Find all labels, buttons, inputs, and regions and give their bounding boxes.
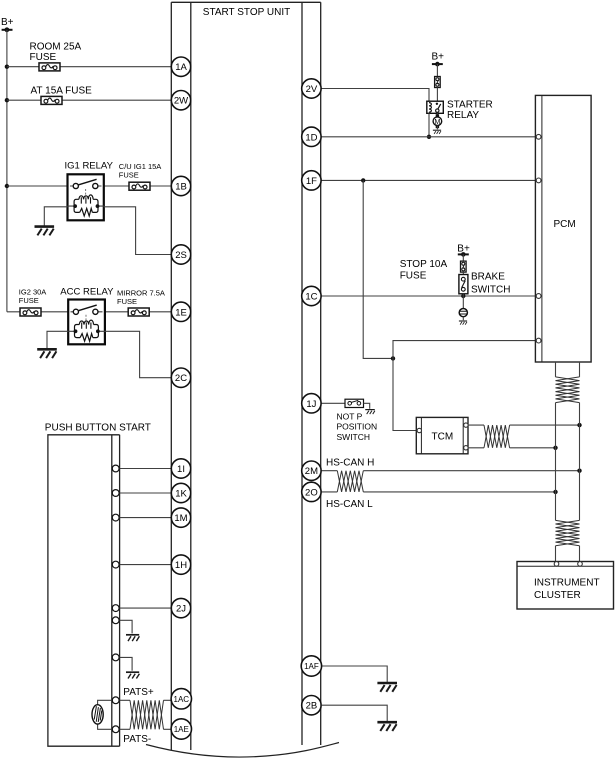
ground push button 1 bbox=[126, 635, 139, 641]
wire TCM CAN L bbox=[468, 447, 556, 449]
svg-text:CLUSTER: CLUSTER bbox=[534, 590, 581, 601]
pin cluster CAN H bbox=[578, 562, 583, 567]
node junction CAN branch bbox=[391, 356, 395, 360]
svg-text:PATS+: PATS+ bbox=[123, 687, 154, 698]
pin PCM CAN bbox=[536, 338, 541, 343]
node junction brake switch / 1C bbox=[461, 294, 465, 298]
pin push button 2J bbox=[112, 605, 119, 612]
wire TCM CAN H bbox=[468, 424, 580, 426]
ground starter motor bbox=[433, 130, 441, 134]
pin PCM 1C bbox=[536, 294, 541, 299]
break wavy line at unit bottom bbox=[146, 743, 339, 758]
pin 1H bbox=[171, 555, 190, 574]
svg-text:IG1 RELAY: IG1 RELAY bbox=[65, 160, 114, 171]
power B+ left bbox=[1, 17, 14, 32]
wire brake switch to 1C line bbox=[462, 294, 464, 296]
power B+ stop bbox=[457, 244, 470, 257]
relay ACC K2 bbox=[68, 300, 105, 345]
pin 2B bbox=[302, 696, 321, 715]
svg-text:FUSE: FUSE bbox=[30, 52, 57, 63]
node junction 2M / bus H bbox=[577, 469, 581, 473]
pin 2V bbox=[302, 79, 321, 98]
svg-text:M: M bbox=[434, 119, 440, 126]
motor starter M bbox=[433, 113, 442, 129]
wire 1A feed bbox=[7, 66, 172, 68]
wire 1C line to ground point bbox=[462, 296, 464, 309]
PCM box bbox=[535, 95, 591, 362]
pin 2S bbox=[171, 245, 190, 264]
svg-text:C/U IG1 15A: C/U IG1 15A bbox=[119, 162, 162, 171]
svg-text:B+: B+ bbox=[1, 17, 14, 28]
svg-text:2O: 2O bbox=[305, 487, 318, 498]
label STARTER RELAY bbox=[447, 100, 493, 122]
fuse IG2 30A bbox=[20, 308, 41, 316]
pin PCM 1D bbox=[536, 134, 541, 139]
wire PATS- bbox=[116, 728, 172, 730]
svg-text:1M: 1M bbox=[174, 513, 187, 524]
switch BRAKE bbox=[459, 275, 468, 294]
svg-text:1AF: 1AF bbox=[304, 662, 319, 671]
wire 2M HS-CAN H bbox=[321, 470, 579, 472]
node junction B+/1B bbox=[5, 184, 9, 188]
pin 1J bbox=[302, 394, 321, 413]
pin TCM CAN L bbox=[464, 446, 468, 450]
pin push button PATS+ bbox=[112, 697, 119, 704]
svg-text:INSTRUMENT: INSTRUMENT bbox=[534, 578, 600, 589]
relay STARTER bbox=[427, 101, 444, 113]
label C/U IG1 15A FUSE bbox=[119, 162, 162, 180]
ground point eyelet bbox=[459, 309, 467, 317]
instrument cluster box bbox=[517, 562, 614, 610]
svg-text:NOT P: NOT P bbox=[337, 411, 363, 421]
svg-text:2V: 2V bbox=[306, 84, 318, 95]
twisted pair HS-CAN bbox=[337, 471, 363, 492]
wire starter fuse to relay bbox=[436, 88, 438, 102]
svg-text:FUSE: FUSE bbox=[119, 171, 139, 180]
svg-text:HS-CAN H: HS-CAN H bbox=[326, 458, 374, 469]
svg-text:MIRROR 7.5A: MIRROR 7.5A bbox=[117, 288, 165, 297]
wire 2O HS-CAN L bbox=[321, 491, 555, 493]
svg-text:FUSE: FUSE bbox=[19, 296, 39, 305]
wire 1K bbox=[116, 492, 172, 494]
pin 1AF bbox=[301, 656, 321, 676]
svg-text:2B: 2B bbox=[306, 701, 318, 712]
pin push button 1H bbox=[112, 561, 119, 568]
fuse AT 15A bbox=[41, 96, 62, 104]
wire 1E feed bbox=[7, 311, 172, 313]
wire IG1 coil to ground bbox=[44, 207, 67, 226]
power B+ starter bbox=[432, 52, 445, 67]
svg-text:1E: 1E bbox=[175, 307, 187, 318]
ground 1AF bbox=[377, 683, 397, 692]
svg-text:1J: 1J bbox=[306, 399, 316, 410]
label BRAKE SWITCH bbox=[471, 272, 510, 296]
wire push button ground 2 bbox=[116, 657, 132, 670]
wire 1F to PCM bbox=[321, 179, 536, 181]
pin PCM 1F bbox=[536, 178, 541, 183]
pin 1K bbox=[171, 483, 190, 502]
svg-text:IG2 30A: IG2 30A bbox=[19, 287, 47, 296]
svg-text:STOP 10A: STOP 10A bbox=[400, 259, 448, 270]
svg-text:1A: 1A bbox=[175, 62, 187, 73]
svg-text:FUSE: FUSE bbox=[117, 297, 137, 306]
relay IG1 K1 bbox=[68, 174, 104, 220]
node junction TCM L / bus bbox=[553, 446, 557, 450]
svg-text:2W: 2W bbox=[174, 96, 188, 107]
pin push button 1K bbox=[112, 490, 119, 497]
wire eyelet to ground bbox=[462, 317, 464, 321]
pin push button ground 1 bbox=[112, 617, 119, 624]
svg-text:2J: 2J bbox=[176, 604, 186, 615]
node junction 1F branch bbox=[361, 178, 365, 182]
wire 2W feed bbox=[7, 99, 172, 101]
svg-text:1H: 1H bbox=[175, 560, 187, 571]
svg-text:ACC RELAY: ACC RELAY bbox=[60, 286, 114, 297]
pin 1E bbox=[171, 302, 190, 321]
pin push button ground 2 bbox=[112, 654, 119, 661]
wire 1F branch down to CAN node bbox=[363, 180, 393, 358]
bus HS-CAN L vertical bbox=[555, 362, 557, 562]
fuse MIRROR 7.5A bbox=[128, 308, 149, 316]
twisted pair TCM bbox=[484, 425, 510, 448]
node junction starter coil / 1D bbox=[427, 135, 431, 139]
svg-text:ROOM 25A: ROOM 25A bbox=[30, 42, 82, 53]
pin 1D bbox=[302, 127, 321, 146]
wire starter relay coil to 1D line bbox=[428, 113, 430, 137]
wire push button ground 1 bbox=[116, 620, 132, 633]
twisted pair bus upper bbox=[556, 377, 580, 403]
svg-text:1C: 1C bbox=[305, 292, 317, 303]
svg-text:PATS-: PATS- bbox=[123, 734, 151, 745]
pin 2M bbox=[302, 461, 321, 480]
svg-text:START STOP UNIT: START STOP UNIT bbox=[203, 7, 290, 18]
svg-text:1AE: 1AE bbox=[174, 725, 189, 734]
svg-text:FUSE: FUSE bbox=[400, 270, 427, 281]
wire B+ to starter fuse bbox=[436, 64, 438, 76]
wire CAN node to PCM bbox=[393, 341, 536, 359]
ECU START STOP UNIT box bbox=[171, 2, 320, 750]
wire NOT P to ground bbox=[364, 403, 370, 409]
svg-text:1B: 1B bbox=[175, 182, 187, 193]
wire B+ vertical feed bbox=[6, 30, 8, 312]
fuse ROOM 25A bbox=[39, 63, 60, 71]
node junction B+/2W bbox=[5, 98, 9, 102]
ground 2B bbox=[377, 722, 397, 731]
pin TCM left bbox=[417, 428, 421, 432]
pin 2J bbox=[171, 598, 190, 617]
wire 2J bbox=[116, 607, 172, 609]
label MIRROR 7.5A FUSE bbox=[117, 288, 165, 306]
wire 2V to starter relay coil bbox=[321, 89, 429, 102]
label INSTRUMENT CLUSTER bbox=[534, 578, 600, 601]
wire PATS+ bbox=[116, 699, 172, 701]
svg-text:BRAKE: BRAKE bbox=[471, 272, 505, 283]
label ROOM 25A FUSE bbox=[30, 42, 82, 64]
pin push button 1I bbox=[112, 465, 119, 472]
svg-text:B+: B+ bbox=[432, 52, 445, 63]
svg-text:SWITCH: SWITCH bbox=[471, 284, 510, 295]
svg-text:1I: 1I bbox=[177, 464, 185, 475]
pin 1M bbox=[171, 508, 190, 527]
pin 2W bbox=[171, 91, 190, 110]
ground push button 2 bbox=[126, 672, 139, 678]
wire 2B to ground bbox=[322, 705, 387, 721]
immobilizer antenna coil bbox=[92, 700, 116, 729]
wire 1J bbox=[321, 402, 345, 404]
bus HS-CAN H vertical bbox=[579, 362, 581, 562]
wire 1C to PCM bbox=[321, 295, 536, 297]
pin TCM CAN H bbox=[464, 423, 468, 427]
wire stop fuse to brake switch bbox=[462, 272, 464, 275]
wire 1I bbox=[116, 468, 172, 470]
ground brake switch bbox=[459, 321, 467, 325]
wire 1B feed bbox=[7, 185, 172, 187]
pin 1B bbox=[171, 176, 190, 195]
pin 2O bbox=[302, 482, 321, 501]
switch NOT P POSITION bbox=[345, 399, 364, 407]
svg-text:1D: 1D bbox=[305, 132, 317, 143]
svg-text:2S: 2S bbox=[175, 250, 187, 261]
wire 1M bbox=[116, 517, 172, 519]
pin 1C bbox=[302, 286, 321, 305]
ground ACC relay bbox=[37, 349, 57, 358]
label IG2 30A FUSE bbox=[19, 287, 47, 305]
node junction B+/1A bbox=[5, 65, 9, 69]
wire 1D to PCM bbox=[321, 136, 536, 138]
wire B+ to stop fuse bbox=[462, 254, 464, 261]
node junction 2O / bus L bbox=[553, 490, 557, 494]
label NOT P POSITION SWITCH bbox=[337, 411, 378, 442]
svg-text:STARTER: STARTER bbox=[447, 100, 493, 111]
wire CAN node to TCM bbox=[393, 358, 417, 430]
svg-text:1AC: 1AC bbox=[174, 695, 190, 704]
svg-text:RELAY: RELAY bbox=[447, 110, 479, 121]
svg-text:SWITCH: SWITCH bbox=[337, 432, 371, 442]
pin push button 1M bbox=[112, 514, 119, 521]
svg-text:1F: 1F bbox=[306, 176, 317, 187]
pin 1AE bbox=[171, 719, 191, 739]
svg-text:PCM: PCM bbox=[554, 219, 576, 230]
svg-text:2M: 2M bbox=[305, 466, 318, 477]
fuse STOP 10A bbox=[461, 261, 467, 272]
wire ACC coil to ground bbox=[47, 331, 68, 348]
svg-text:HS-CAN L: HS-CAN L bbox=[326, 499, 373, 510]
svg-text:TCM: TCM bbox=[432, 432, 454, 443]
ground NOT P switch bbox=[365, 410, 375, 415]
fuse starter relay bbox=[435, 77, 441, 88]
wire IG1 coil to 2S bbox=[104, 207, 172, 255]
push button start switch box bbox=[48, 435, 120, 746]
pin 2C bbox=[171, 368, 190, 387]
wire 1H bbox=[116, 564, 172, 566]
node junction TCM H / bus bbox=[577, 423, 581, 427]
svg-text:PUSH BUTTON START: PUSH BUTTON START bbox=[45, 423, 151, 434]
TCM box bbox=[416, 417, 468, 453]
pin 1I bbox=[171, 459, 190, 478]
wire 1AF to ground bbox=[322, 666, 387, 682]
label STOP 10A FUSE bbox=[400, 259, 448, 281]
svg-text:2C: 2C bbox=[175, 373, 187, 384]
pin cluster CAN L bbox=[554, 562, 559, 567]
pin 1AC bbox=[171, 689, 191, 709]
pin 1F bbox=[302, 171, 321, 190]
svg-text:AT 15A FUSE: AT 15A FUSE bbox=[31, 86, 93, 97]
pin 1A bbox=[171, 57, 190, 76]
pin push button PATS- bbox=[112, 726, 119, 733]
wire ACC coil to 2C bbox=[105, 331, 172, 377]
twisted pair bus lower bbox=[556, 520, 580, 545]
fuse C/U IG1 15A bbox=[129, 182, 150, 190]
ground IG1 relay bbox=[35, 227, 55, 236]
svg-text:POSITION: POSITION bbox=[337, 422, 378, 432]
svg-text:1K: 1K bbox=[175, 489, 187, 500]
twisted pair PATS bbox=[130, 700, 164, 729]
